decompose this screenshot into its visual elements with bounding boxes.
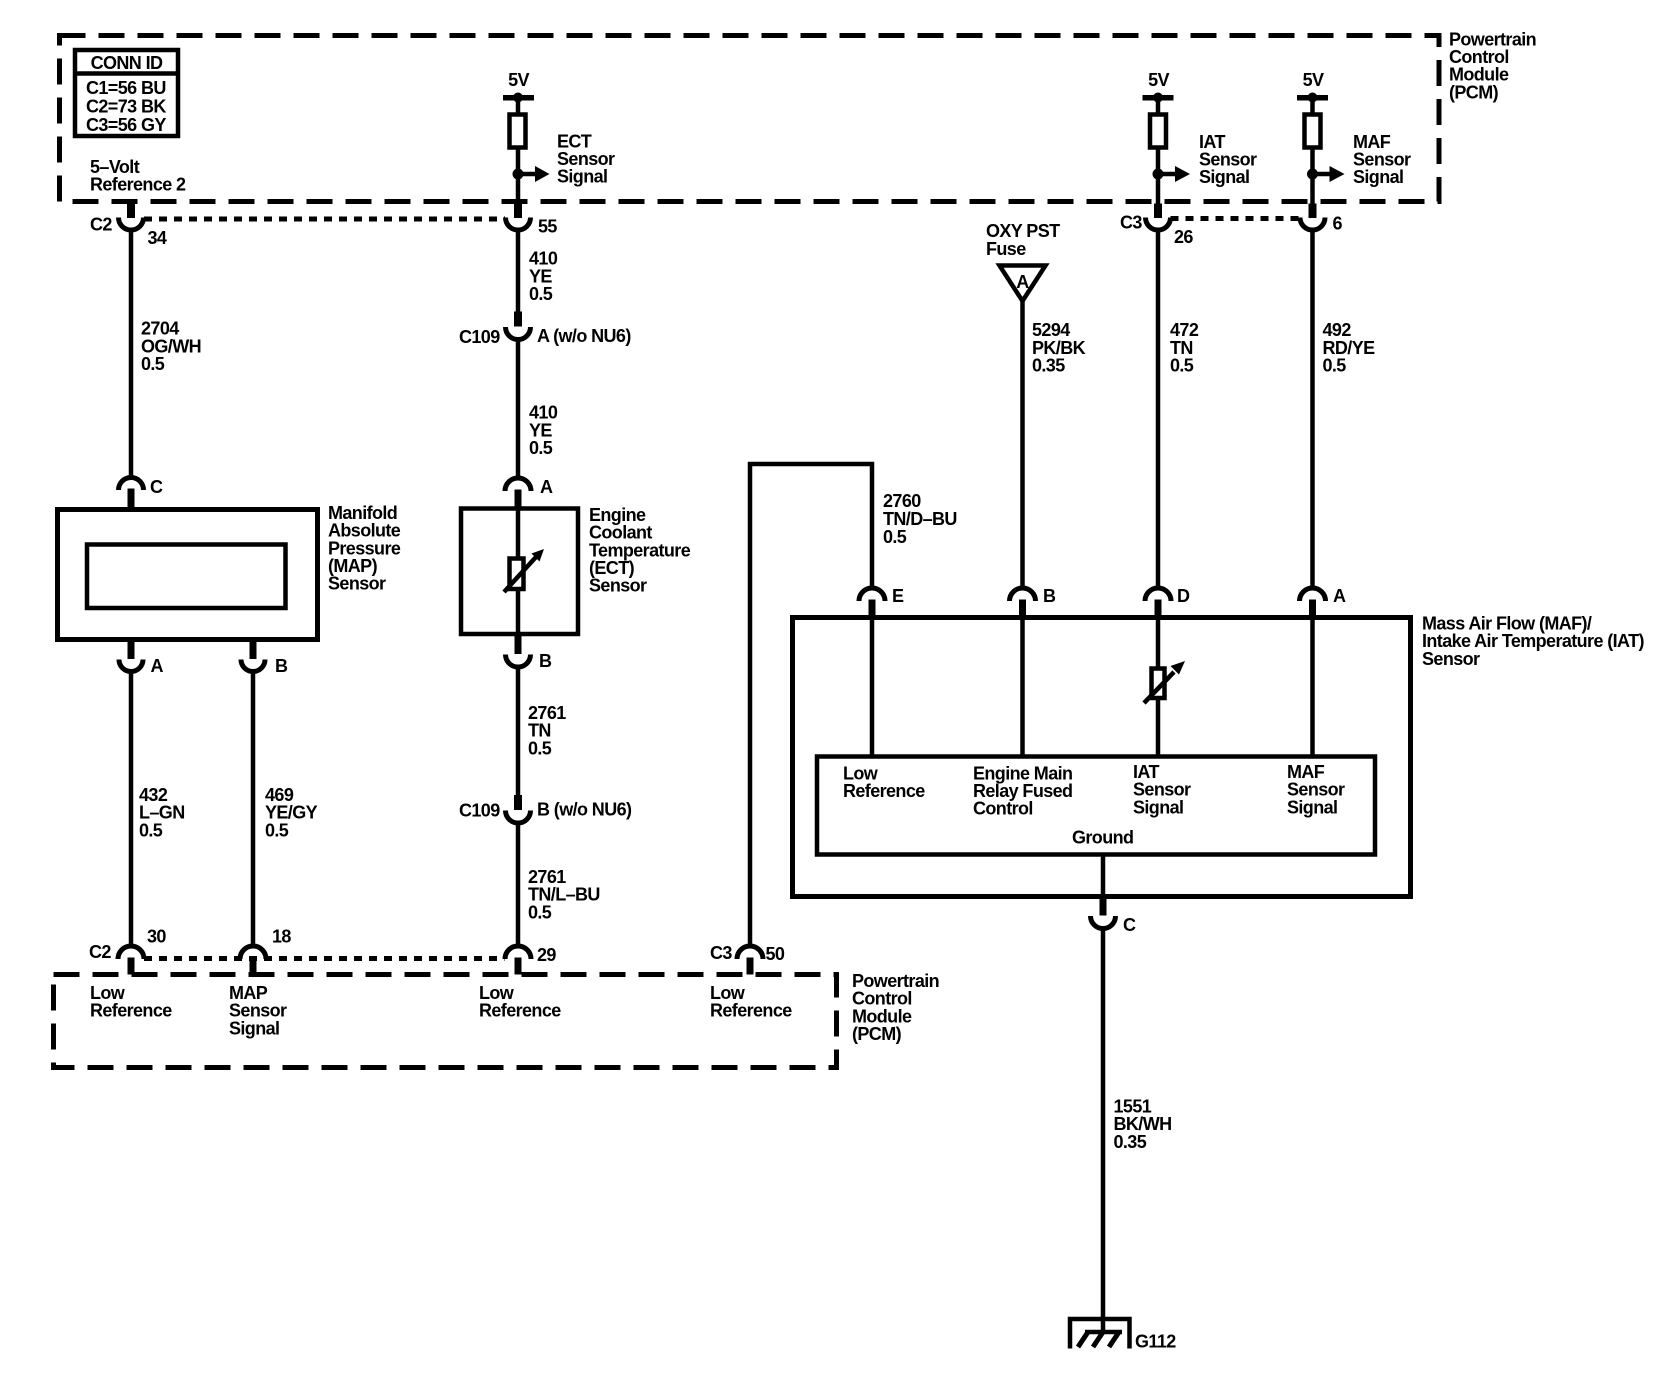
svg-text:Sensor: Sensor xyxy=(229,1001,287,1021)
wire resistor to pin 26 xyxy=(1156,147,1161,204)
svg-text:5V: 5V xyxy=(1148,70,1169,90)
label IAT Sensor Signal (inner) xyxy=(1133,762,1191,818)
svg-text:Reference: Reference xyxy=(710,1001,792,1021)
svg-text:B: B xyxy=(1043,586,1056,606)
svg-text:D: D xyxy=(1177,586,1190,606)
wire pin D to inner box xyxy=(1156,616,1161,757)
label 432 L-GN 0.5 xyxy=(139,785,185,841)
svg-text:E: E xyxy=(892,586,904,606)
svg-text:C2: C2 xyxy=(90,215,112,235)
wire 5V to resistor xyxy=(1310,97,1315,115)
ECT sensor box xyxy=(461,509,578,635)
svg-text:0.5: 0.5 xyxy=(265,821,289,841)
MAF/IAT sensor box xyxy=(793,618,1411,897)
wire 5V to resistor xyxy=(516,97,521,115)
svg-text:0.5: 0.5 xyxy=(139,821,163,841)
svg-text:TN/D–BU: TN/D–BU xyxy=(883,509,957,529)
label 2761 TN 0.5 xyxy=(528,703,566,759)
svg-text:G112: G112 xyxy=(1135,1332,1176,1352)
svg-text:0.5: 0.5 xyxy=(883,527,907,547)
PCM label (bottom right) xyxy=(852,971,939,1044)
svg-text:Sensor: Sensor xyxy=(1133,780,1191,800)
svg-text:0.5: 0.5 xyxy=(1323,356,1347,376)
pin D (MAF/IAT sensor) xyxy=(1145,586,1190,618)
label 5294 PK/BK 0.35 xyxy=(1032,320,1086,376)
pin 18 (MAP signal) xyxy=(240,927,291,975)
svg-text:Signal: Signal xyxy=(229,1019,279,1039)
arrow MAF Sensor Signal xyxy=(1313,166,1345,182)
pin 6 (MAF signal) xyxy=(1300,204,1343,234)
pin C3-50 (PCM low ref) xyxy=(710,943,785,975)
arrow IAT Sensor Signal xyxy=(1158,166,1190,182)
svg-text:Coolant: Coolant xyxy=(589,523,652,543)
svg-text:5294: 5294 xyxy=(1032,320,1070,340)
label MAP sensor xyxy=(328,503,401,594)
pin B (MAP sensor bottom) xyxy=(241,640,288,676)
label 2704 OG/WH 0.5 xyxy=(141,319,201,375)
svg-text:0.5: 0.5 xyxy=(529,284,553,304)
connector C109 pin B xyxy=(459,795,632,823)
node MAF signal junction xyxy=(1307,169,1318,180)
wire resistor to pin 55 xyxy=(516,147,521,204)
svg-text:B: B xyxy=(275,656,288,676)
wire pin E to inner box xyxy=(870,616,875,757)
svg-text:5V: 5V xyxy=(1303,70,1324,90)
svg-text:0.5: 0.5 xyxy=(1170,356,1194,376)
fuse OXY PST xyxy=(986,221,1060,301)
svg-text:6: 6 xyxy=(1333,214,1343,234)
thermistor ECT xyxy=(504,549,544,592)
svg-text:Control: Control xyxy=(852,989,912,1009)
pin C (MAP sensor top) xyxy=(119,477,164,508)
svg-text:C: C xyxy=(150,477,163,497)
label Low Reference (inner) xyxy=(843,764,925,802)
svg-text:CONN ID: CONN ID xyxy=(91,53,163,73)
label 2760 TN/D-BU 0.5 xyxy=(883,491,957,547)
svg-text:Absolute: Absolute xyxy=(328,521,401,541)
svg-text:0.35: 0.35 xyxy=(1114,1132,1147,1152)
svg-text:Signal: Signal xyxy=(1353,167,1403,187)
wire 5V to resistor xyxy=(1156,97,1161,115)
label 1551 BK/WH 0.35 xyxy=(1114,1097,1172,1153)
svg-text:Intake Air Temperature (IAT): Intake Air Temperature (IAT) xyxy=(1422,631,1645,651)
label ECT sensor xyxy=(589,505,691,596)
svg-text:L–GN: L–GN xyxy=(139,803,185,823)
label 492 RD/YE 0.5 xyxy=(1323,320,1376,376)
svg-text:2760: 2760 xyxy=(883,491,921,511)
wire 410 YE (upper) xyxy=(516,230,521,312)
pin C2-30 (PCM low ref) xyxy=(89,927,166,975)
svg-text:C109: C109 xyxy=(459,801,500,821)
svg-text:410: 410 xyxy=(529,403,558,423)
PCM module box (bottom, dashed) xyxy=(54,975,837,1068)
wire 1551 BK/WH xyxy=(1101,929,1106,1333)
svg-text:18: 18 xyxy=(272,927,291,947)
svg-text:Reference: Reference xyxy=(479,1001,561,1021)
wire 469 YE/GY xyxy=(251,671,256,947)
label ECT Sensor Signal xyxy=(557,132,615,187)
svg-text:C: C xyxy=(1123,915,1136,935)
wire pin A to inner box xyxy=(1310,616,1315,757)
svg-text:Fuse: Fuse xyxy=(986,239,1026,259)
svg-text:410: 410 xyxy=(529,249,558,269)
PCM module box (top, dashed) xyxy=(60,36,1440,202)
connector body dotted line C2 34-55 xyxy=(144,217,505,222)
ground G112 xyxy=(1070,1319,1176,1352)
svg-text:Reference: Reference xyxy=(90,1001,172,1021)
pin A (ECT sensor top) xyxy=(505,477,553,509)
wire 2761 TN xyxy=(516,667,521,796)
pin E (MAF/IAT sensor) xyxy=(859,586,904,618)
svg-text:YE/GY: YE/GY xyxy=(265,803,318,823)
svg-text:A (w/o NU6): A (w/o NU6) xyxy=(537,326,631,346)
svg-text:0.5: 0.5 xyxy=(528,739,552,759)
MAP sensor inner rectangle xyxy=(87,545,286,609)
svg-text:Signal: Signal xyxy=(1287,798,1337,818)
resistor (ECT pull-up) xyxy=(510,115,526,148)
node ECT signal junction xyxy=(513,169,524,180)
svg-text:Control: Control xyxy=(973,799,1033,819)
wire 492 RD/YE xyxy=(1310,230,1315,589)
svg-text:(PCM): (PCM) xyxy=(852,1024,902,1044)
wire pin B to inner box xyxy=(1020,616,1025,757)
wire 2761 TN/L-BU xyxy=(516,823,521,947)
svg-text:2704: 2704 xyxy=(141,319,179,339)
wire ground inside MAF box xyxy=(1101,853,1106,896)
net label 5-Volt Reference 2 xyxy=(90,157,186,195)
connector C109 pin A xyxy=(459,312,631,348)
svg-text:C2: C2 xyxy=(89,942,111,962)
svg-text:A: A xyxy=(151,656,164,676)
pin C2-34 (PCM 5V ref out) xyxy=(90,204,167,249)
pin A (MAP sensor bottom) xyxy=(119,640,164,676)
svg-text:50: 50 xyxy=(766,944,785,964)
pin C (MAF/IAT sensor bottom) xyxy=(1091,895,1137,935)
wire 2704 OG/WH xyxy=(129,230,134,479)
svg-text:Module: Module xyxy=(1449,65,1509,85)
label Low Reference (pin 30) xyxy=(90,983,172,1021)
MAP sensor box xyxy=(58,510,318,640)
connector body dotted line 30-18-29 xyxy=(144,956,505,961)
svg-text:Signal: Signal xyxy=(1199,167,1249,187)
pin C3-26 (IAT signal) xyxy=(1120,204,1193,248)
svg-text:Reference: Reference xyxy=(843,781,925,801)
resistor (MAF pull-up) xyxy=(1305,115,1321,148)
svg-text:C1=56 BU: C1=56 BU xyxy=(86,78,166,98)
arrow ECT Sensor Signal xyxy=(518,166,550,182)
svg-text:C3=56 GY: C3=56 GY xyxy=(86,115,166,135)
label Low Reference (pin 50) xyxy=(710,983,792,1021)
label IAT Sensor Signal xyxy=(1199,132,1257,187)
svg-text:Reference 2: Reference 2 xyxy=(90,175,186,195)
PCM label (top right) xyxy=(1449,30,1536,103)
svg-text:0.5: 0.5 xyxy=(528,903,552,923)
svg-text:0.5: 0.5 xyxy=(141,354,165,374)
svg-text:492: 492 xyxy=(1323,320,1352,340)
label 410 YE 0.5 (upper) xyxy=(529,249,558,305)
svg-text:C3: C3 xyxy=(1120,213,1142,233)
resistor (IAT pull-up) xyxy=(1150,115,1166,148)
svg-text:TN/L–BU: TN/L–BU xyxy=(528,885,600,905)
label MAF/IAT sensor xyxy=(1422,614,1645,670)
svg-text:A: A xyxy=(540,477,553,497)
svg-text:A: A xyxy=(1333,586,1346,606)
svg-text:26: 26 xyxy=(1174,227,1193,247)
svg-text:B (w/o NU6): B (w/o NU6) xyxy=(537,800,632,820)
pin 55 (ECT signal) xyxy=(506,204,558,237)
wire 410 YE (lower) xyxy=(516,339,521,479)
MAF/IAT inner terminal box xyxy=(817,757,1375,855)
svg-text:OXY PST: OXY PST xyxy=(986,221,1060,241)
wire 472 TN xyxy=(1156,230,1161,589)
svg-text:(PCM): (PCM) xyxy=(1449,83,1499,103)
label MAF Sensor Signal (inner) xyxy=(1287,762,1345,818)
pin B (MAF/IAT sensor) xyxy=(1010,586,1057,618)
5V supply symbol (IAT column) xyxy=(1143,70,1174,103)
label MAP Sensor Signal (pin 18) xyxy=(229,983,287,1039)
svg-text:BK/WH: BK/WH xyxy=(1114,1114,1172,1134)
svg-text:Sensor: Sensor xyxy=(1422,649,1480,669)
connector body dotted line C3 26-6 xyxy=(1171,216,1301,221)
label 2761 TN/L-BU 0.5 xyxy=(528,867,600,923)
svg-text:0.5: 0.5 xyxy=(529,438,553,458)
wire resistor to pin 6 xyxy=(1310,147,1315,204)
svg-text:C109: C109 xyxy=(459,327,500,347)
svg-text:30: 30 xyxy=(147,927,166,947)
svg-text:5V: 5V xyxy=(508,70,529,90)
svg-text:B: B xyxy=(539,651,552,671)
svg-text:Signal: Signal xyxy=(1133,798,1183,818)
wire inside ECT box xyxy=(516,508,521,636)
svg-text:Ground: Ground xyxy=(1072,828,1133,848)
svg-text:55: 55 xyxy=(538,217,557,237)
thermistor IAT xyxy=(1144,661,1185,703)
CONN ID table xyxy=(75,50,178,136)
wire 432 L-GN xyxy=(129,671,134,947)
5V supply symbol (MAF column) xyxy=(1297,70,1328,103)
svg-text:Signal: Signal xyxy=(557,167,607,187)
label Engine Main Relay Fused Control xyxy=(973,764,1072,819)
svg-text:TN: TN xyxy=(528,721,551,741)
pin A (MAF/IAT sensor) xyxy=(1300,586,1347,618)
label 410 YE 0.5 (lower) xyxy=(529,403,558,459)
svg-text:C3: C3 xyxy=(710,943,732,963)
label Low Reference (pin 29) xyxy=(479,983,561,1021)
5V supply symbol (ECT column) xyxy=(503,70,534,103)
wire 5294 PK/BK xyxy=(1020,300,1025,589)
svg-text:0.35: 0.35 xyxy=(1032,356,1065,376)
pin B (ECT sensor bottom) xyxy=(506,634,553,671)
wire 2760 TN/D-BU (E to C3-50 run) xyxy=(750,464,872,947)
svg-text:Sensor: Sensor xyxy=(589,576,647,596)
label 472 TN 0.5 xyxy=(1170,320,1199,376)
label 469 YE/GY 0.5 xyxy=(265,785,318,841)
svg-text:A: A xyxy=(1016,272,1029,292)
svg-text:472: 472 xyxy=(1170,320,1199,340)
svg-text:Sensor: Sensor xyxy=(1287,780,1345,800)
svg-text:29: 29 xyxy=(537,945,556,965)
pin 29 (PCM low ref) xyxy=(505,945,556,975)
svg-text:C2=73 BK: C2=73 BK xyxy=(86,97,166,117)
label MAF Sensor Signal xyxy=(1353,132,1411,187)
node IAT signal junction xyxy=(1153,169,1164,180)
svg-text:Sensor: Sensor xyxy=(328,574,386,594)
svg-text:34: 34 xyxy=(148,228,167,248)
